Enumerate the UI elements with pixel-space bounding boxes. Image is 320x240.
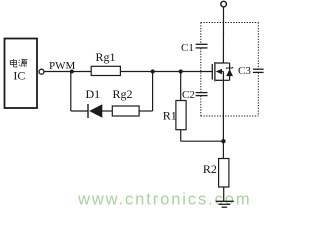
wire R2 to ground (223, 187, 225, 201)
label 电 (10, 59, 16, 67)
terminal circle PWM output (39, 69, 44, 74)
capacitor C1 (196, 44, 208, 48)
svg-text:www.cntronics.com: www.cntronics.com (77, 191, 252, 209)
capacitor C3 (253, 69, 264, 72)
svg-text:R1: R1 (163, 109, 177, 123)
body diode loop (223, 63, 229, 80)
capacitor C2 (196, 93, 208, 96)
resistor Rg1 (91, 66, 120, 75)
dashed box MOSFET parasitics (201, 23, 258, 117)
wire PWM node to D1 (71, 110, 88, 112)
svg-text:IC: IC (13, 68, 25, 82)
diode D1 (88, 104, 102, 118)
resistor R2 (219, 159, 229, 188)
wire drain from terminal (222, 7, 224, 63)
svg-text:Rg1: Rg1 (96, 50, 116, 64)
ground (216, 201, 234, 207)
junction node PWM (70, 70, 74, 74)
wire R1 branch top (180, 72, 182, 101)
wire lower branch right vertical (152, 72, 154, 112)
svg-text:C2: C2 (182, 89, 195, 101)
wire D1 to Rg2 (102, 110, 113, 112)
svg-text:C1: C1 (181, 42, 194, 54)
wire source trunk down to R2 (222, 72, 224, 159)
power IC box (5, 39, 38, 109)
junction node B (Rg1/Rg2 right) (151, 69, 155, 73)
svg-text:D1: D1 (86, 87, 101, 101)
wire R1 bottom to source node (180, 130, 182, 142)
resistor R1 (176, 101, 186, 130)
junction node gate/R1 (179, 69, 183, 73)
resistor Rg2 (112, 106, 139, 116)
wire PWM main horizontal (44, 71, 212, 73)
wire Rg2 to node B (139, 110, 153, 112)
terminal circle drain top (221, 1, 227, 7)
svg-text:PWM: PWM (49, 60, 76, 72)
wire horizontal R1 to source node (181, 140, 224, 142)
svg-text:R2: R2 (203, 162, 217, 176)
wire lower branch left vertical (70, 72, 72, 112)
body diode triangle (226, 69, 233, 76)
junction node source/R1 (221, 139, 225, 143)
svg-text:C3: C3 (238, 65, 251, 77)
svg-text:Rg2: Rg2 (113, 87, 133, 101)
body diode cathode bar (226, 67, 233, 68)
MOSFET Q1 (212, 62, 223, 81)
MOSFET source arrow (216, 69, 222, 75)
label 源 (18, 59, 27, 67)
